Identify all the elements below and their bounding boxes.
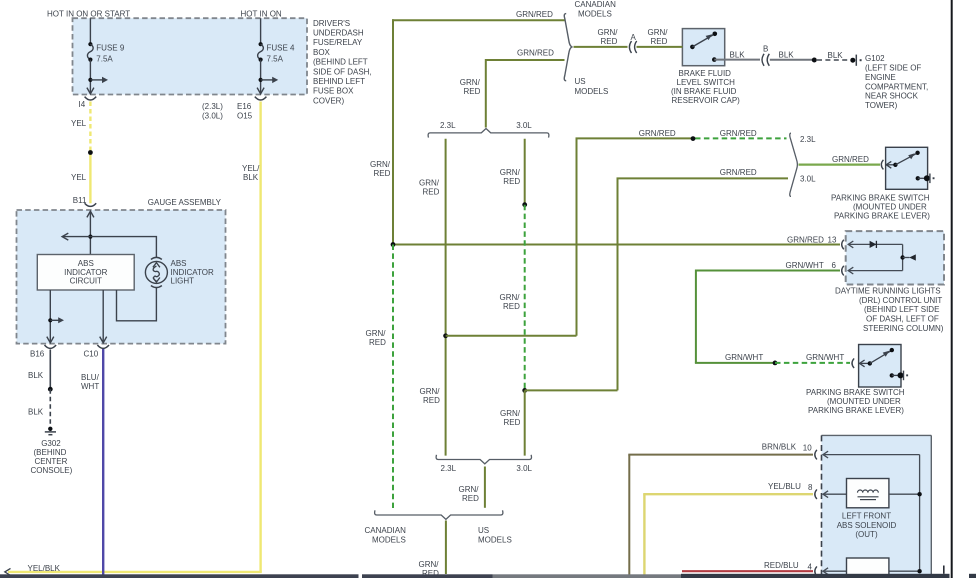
- svg-text:B11: B11: [73, 196, 87, 205]
- svg-text:(MOUNTED UNDER: (MOUNTED UNDER: [853, 203, 927, 212]
- wire GRN/RED 3.0L mid dashed: [524, 205, 526, 391]
- fuse 9 tap junction: [88, 78, 92, 82]
- svg-text:RED: RED: [423, 188, 440, 197]
- connector A: [629, 41, 636, 53]
- wire GRN/WHT horizontal to splice: [695, 362, 775, 364]
- fuse 4 tap junction: [259, 78, 263, 82]
- wire GRN/RED 3.0L mid vertical upper: [524, 139, 526, 205]
- svg-text:ABS: ABS: [171, 259, 187, 268]
- svg-text:INDICATOR: INDICATOR: [64, 268, 107, 277]
- wire GRN/RED top horizontal: [392, 19, 565, 21]
- right page border: [951, 0, 953, 578]
- svg-text:TOWER): TOWER): [865, 101, 898, 110]
- splice dot on YEL wire: [88, 150, 93, 155]
- splice dot 3.0L upper: [522, 202, 527, 207]
- svg-text:CANADIAN: CANADIAN: [365, 526, 407, 535]
- connector E16/O15: [255, 97, 267, 100]
- svg-text:BRN/BLK: BRN/BLK: [762, 443, 797, 452]
- svg-text:2.3L: 2.3L: [800, 135, 816, 144]
- svg-text:FUSE/RELAY: FUSE/RELAY: [313, 38, 363, 47]
- ABS modulator box: [822, 435, 932, 578]
- svg-text:GRN/RED: GRN/RED: [516, 10, 553, 19]
- svg-text:GRN/RED: GRN/RED: [832, 155, 869, 164]
- svg-text:(BEHIND LEFT SIDE: (BEHIND LEFT SIDE: [864, 305, 939, 314]
- connector DRL pin 13: [842, 240, 844, 250]
- svg-text:BLK: BLK: [779, 50, 795, 59]
- svg-text:RED: RED: [601, 37, 618, 46]
- wire YEL/BLU vertical: [643, 494, 645, 574]
- svg-text:(IN BRAKE FLUID: (IN BRAKE FLUID: [671, 87, 737, 96]
- connector parking brake 2: [852, 358, 854, 368]
- svg-text:BLK: BLK: [28, 408, 44, 417]
- label ABS indicator light: [171, 259, 214, 285]
- bottom bar segment 4: [681, 574, 950, 578]
- svg-text:B16: B16: [30, 350, 45, 359]
- svg-text:YEL/BLK: YEL/BLK: [28, 564, 61, 573]
- splice dot BLK: [48, 387, 53, 392]
- svg-text:7.5A: 7.5A: [267, 54, 284, 63]
- fuse 9 down arrow at box edge: [87, 88, 94, 94]
- svg-text:FUSE 9: FUSE 9: [96, 44, 125, 53]
- svg-text:GRN/WHT: GRN/WHT: [806, 353, 844, 362]
- wire BRN/BLK horizontal to pin 10: [628, 454, 813, 456]
- wire GRN/WHT vertical: [695, 270, 697, 363]
- wire BLK gray dashed: [817, 59, 849, 61]
- svg-text:ENGINE: ENGINE: [865, 73, 896, 82]
- left arrow gauge: [62, 233, 68, 240]
- svg-text:(BEHIND LEFT: (BEHIND LEFT: [313, 58, 368, 67]
- svg-text:RED: RED: [503, 177, 520, 186]
- wire GRN/WHT from DRL pin 6: [696, 270, 840, 272]
- B11 entry arrow up: [87, 211, 94, 217]
- splice dot BLK gray: [812, 58, 817, 63]
- wire B11 down to junction: [89, 211, 91, 254]
- svg-text:UNDERDASH: UNDERDASH: [313, 29, 364, 38]
- wire YEL dashed I4 to splice: [89, 102, 91, 153]
- svg-text:PARKING BRAKE SWITCH: PARKING BRAKE SWITCH: [806, 388, 905, 397]
- svg-text:B: B: [763, 45, 768, 54]
- stub arrow right from splice: [50, 317, 64, 323]
- svg-text:RED: RED: [503, 302, 520, 311]
- wire GRN/WHT dashed to parking brake switch 2: [775, 362, 850, 364]
- wire BLK gray from brake fluid switch: [714, 59, 760, 61]
- svg-text:RESERVOIR CAP): RESERVOIR CAP): [672, 96, 741, 105]
- connector B11: [85, 203, 97, 206]
- svg-text:GRN/: GRN/: [459, 485, 480, 494]
- svg-text:GRN/: GRN/: [366, 329, 387, 338]
- wire GRN/RED connector A to brake fluid switch: [637, 46, 683, 48]
- svg-text:US: US: [478, 526, 489, 535]
- wire circuit middle pin down: [102, 290, 104, 343]
- connector pin 8: [815, 489, 817, 499]
- svg-text:13: 13: [828, 236, 837, 245]
- DRL internal vertical: [902, 244, 904, 270]
- splice dot 3.0L lower: [522, 388, 527, 393]
- svg-text:RED: RED: [374, 169, 391, 178]
- svg-text:2.3L: 2.3L: [440, 121, 456, 130]
- left pin down arrow: [47, 337, 54, 343]
- svg-text:LEFT FRONT: LEFT FRONT: [842, 512, 891, 521]
- svg-text:DAYTIME RUNNING LIGHTS: DAYTIME RUNNING LIGHTS: [835, 287, 941, 296]
- wire YEL solid splice to B11: [89, 153, 91, 204]
- svg-text:STEERING COLUMN): STEERING COLUMN): [863, 324, 944, 333]
- svg-text:FUSE BOX: FUSE BOX: [313, 87, 354, 96]
- internal vertical bus: [919, 455, 921, 572]
- DRL pin 13 internal line with diode: [848, 241, 902, 248]
- wire GRN/RED dashed canadian below splice: [392, 245, 394, 509]
- wire GRN/RED splice to right vertical: [446, 335, 577, 337]
- ground G102: [850, 55, 861, 66]
- wire BLU/WHT C10 down: [102, 349, 104, 575]
- wire junction to left arrow: [64, 236, 91, 238]
- connector B: [762, 54, 769, 66]
- svg-text:BLU/: BLU/: [81, 373, 100, 382]
- parking brake switch box 1: [886, 147, 928, 189]
- svg-text:GRN/RED: GRN/RED: [517, 49, 554, 58]
- DRL internal junction with stub arrow: [900, 254, 915, 260]
- svg-text:I4: I4: [79, 100, 86, 109]
- fuse 9 tap arrow right: [90, 77, 108, 83]
- fuse 4 down arrow at box edge: [257, 88, 264, 94]
- bracket 2.3L/3.0L lower: [436, 455, 531, 464]
- junction dot solenoid bus: [917, 492, 921, 496]
- svg-text:GRN/: GRN/: [500, 409, 521, 418]
- svg-text:GRN/WHT: GRN/WHT: [786, 261, 824, 270]
- middle pin down arrow: [100, 337, 107, 343]
- svg-text:MODELS: MODELS: [478, 536, 512, 545]
- wire GRN/RED 2.3L dashed to brace: [695, 137, 787, 139]
- svg-text:WHT: WHT: [81, 382, 99, 391]
- svg-text:GRN/: GRN/: [500, 168, 521, 177]
- svg-text:OF DASH, LEFT OF: OF DASH, LEFT OF: [866, 315, 939, 324]
- connector parking brake 1: [881, 160, 883, 170]
- bottom bar segment 2: [362, 574, 493, 578]
- svg-text:GRN/: GRN/: [419, 560, 440, 569]
- svg-text:COMPARTMENT,: COMPARTMENT,: [865, 82, 928, 91]
- svg-text:G302: G302: [41, 439, 61, 448]
- svg-text:YEL: YEL: [71, 119, 87, 128]
- hot feed wire fuse 4: [260, 18, 262, 44]
- svg-text:A: A: [631, 33, 637, 42]
- wire YEL/BLK fuse4 down: [259, 102, 261, 572]
- gauge assembly box: [17, 210, 226, 344]
- wire GRN/RED horizontal to DRL pin 13: [393, 244, 840, 246]
- svg-text:CANADIAN: CANADIAN: [575, 0, 617, 9]
- svg-text:RED: RED: [462, 494, 479, 503]
- svg-text:INDICATOR: INDICATOR: [171, 268, 214, 277]
- svg-text:BLK: BLK: [243, 173, 259, 182]
- svg-text:GRN/: GRN/: [460, 78, 481, 87]
- svg-text:(MOUNTED UNDER: (MOUNTED UNDER: [827, 397, 901, 406]
- ABS indicator circuit box: [37, 255, 134, 291]
- svg-text:(LEFT SIDE OF: (LEFT SIDE OF: [865, 64, 921, 73]
- connector I4: [85, 97, 97, 100]
- svg-text:C10: C10: [84, 350, 99, 359]
- svg-text:PARKING BRAKE SWITCH: PARKING BRAKE SWITCH: [831, 194, 930, 203]
- svg-text:BEHIND LEFT: BEHIND LEFT: [313, 77, 365, 86]
- svg-text:3.0L: 3.0L: [800, 174, 816, 183]
- splice dot 2.3L mid: [443, 333, 448, 338]
- wire RED/BLU horizontal to pin 4: [682, 570, 813, 572]
- bottom bar segment 5: [969, 574, 976, 578]
- svg-text:GRN/RED: GRN/RED: [787, 235, 824, 244]
- svg-text:BLK: BLK: [730, 50, 746, 59]
- svg-text:8: 8: [808, 483, 813, 492]
- svg-text:CENTER: CENTER: [35, 457, 68, 466]
- wire circuit left pin down: [49, 290, 51, 343]
- label parking brake switch 2: [806, 388, 905, 415]
- wire GRN/RED canadian vertical: [392, 19, 394, 244]
- svg-text:(3.0L): (3.0L): [202, 111, 223, 120]
- svg-text:DRIVER'S: DRIVER'S: [313, 19, 350, 28]
- label G102 location: [865, 64, 928, 110]
- svg-text:(BEHIND: (BEHIND: [34, 448, 67, 457]
- svg-text:RED/BLU: RED/BLU: [764, 561, 799, 570]
- label G302: [31, 439, 73, 475]
- svg-text:CIRCUIT: CIRCUIT: [70, 277, 103, 286]
- pin 10 internal line: [823, 451, 920, 458]
- svg-text:HOT IN ON OR START: HOT IN ON OR START: [47, 10, 130, 19]
- label brake fluid level switch: [671, 69, 740, 105]
- wire GRN/RED 2.3L vertical down from brake line: [576, 138, 578, 335]
- svg-text:GAUGE ASSEMBLY: GAUGE ASSEMBLY: [148, 198, 222, 207]
- cut-off box edge bottom right: [943, 566, 945, 574]
- connector B16: [45, 345, 57, 348]
- svg-text:MODELS: MODELS: [575, 87, 609, 96]
- svg-text:GRN/RED: GRN/RED: [720, 129, 757, 138]
- wire GRN/RED US horizontal: [485, 59, 565, 61]
- wire GRN/RED splice to 3.0L right vertical: [525, 389, 618, 391]
- svg-text:GRN/: GRN/: [500, 293, 521, 302]
- fuse 9 output wire: [89, 60, 91, 95]
- svg-text:YEL: YEL: [71, 173, 87, 182]
- svg-text:GRN/: GRN/: [370, 160, 391, 169]
- svg-text:6: 6: [832, 261, 837, 270]
- svg-text:(2.3L): (2.3L): [202, 102, 223, 111]
- parking brake switch 2 internals: [860, 348, 909, 380]
- splice dot left pin: [48, 318, 52, 322]
- wire GRN/RED 2.3L horizontal to splice: [576, 137, 694, 139]
- svg-text:GRN/: GRN/: [420, 387, 441, 396]
- svg-text:BLK: BLK: [828, 51, 844, 60]
- svg-text:FUSE 4: FUSE 4: [267, 44, 296, 53]
- solenoid to bus wire: [889, 493, 920, 495]
- svg-text:O15: O15: [237, 111, 253, 120]
- SECTION: brake fluid level switch internals: [682, 32, 717, 62]
- wire GRN/RED 2.3L mid vertical: [445, 139, 447, 456]
- svg-text:E16: E16: [237, 102, 252, 111]
- splice dot GRN/RED main: [391, 242, 396, 247]
- svg-text:(OUT): (OUT): [855, 530, 878, 539]
- bottom bar segment 3: [493, 574, 682, 578]
- svg-text:US: US: [575, 77, 586, 86]
- svg-text:(DRL) CONTROL UNIT: (DRL) CONTROL UNIT: [859, 296, 942, 305]
- svg-text:RED: RED: [651, 37, 668, 46]
- svg-text:RED: RED: [369, 338, 386, 347]
- svg-text:GRN/: GRN/: [598, 28, 619, 37]
- connector pin 4: [815, 566, 817, 576]
- svg-text:COVER): COVER): [313, 96, 344, 105]
- wire junction to bulb: [90, 237, 156, 258]
- fuse 4 element: [258, 42, 264, 62]
- arrow left end of YEL/BLK: [5, 568, 11, 575]
- pin 4 internal line: [823, 568, 922, 575]
- svg-text:BOX: BOX: [313, 48, 331, 57]
- svg-text:GRN/: GRN/: [648, 28, 669, 37]
- wire BLK solid: [49, 350, 51, 390]
- svg-text:GRN/: GRN/: [419, 179, 440, 188]
- svg-text:RED: RED: [423, 396, 440, 405]
- svg-text:PARKING BRAKE LEVER): PARKING BRAKE LEVER): [808, 406, 904, 415]
- wire bulb bottom loop to circuit box: [117, 287, 157, 321]
- parking brake switch 1 internals: [886, 151, 934, 184]
- solenoid coil box: [847, 479, 889, 508]
- svg-text:YEL/BLU: YEL/BLU: [768, 482, 801, 491]
- DRL control unit box: [846, 231, 944, 284]
- svg-text:YEL/: YEL/: [242, 164, 260, 173]
- label driver's underdash fuse/relay box: [313, 19, 372, 106]
- svg-text:3.0L: 3.0L: [516, 464, 532, 473]
- wire GRN/RED 3.0L mid vertical lower: [524, 390, 526, 455]
- splice dot GRN/WHT: [773, 361, 778, 366]
- svg-text:GRN/RED: GRN/RED: [639, 129, 676, 138]
- brace canadian/us models: [564, 14, 572, 81]
- ABS indicator light bulb: [145, 257, 167, 287]
- svg-text:ABS: ABS: [78, 259, 94, 268]
- wire YEL/BLK bottom horizontal: [8, 571, 262, 573]
- svg-text:BRAKE FLUID: BRAKE FLUID: [679, 69, 732, 78]
- fuse 4 tap arrow right: [261, 77, 279, 83]
- svg-text:7.5A: 7.5A: [96, 54, 113, 63]
- wire GRN/RED bottom stem: [445, 521, 447, 575]
- svg-text:CONSOLE): CONSOLE): [31, 466, 73, 475]
- hot feed wire fuse 9: [89, 18, 91, 44]
- svg-text:3.0L: 3.0L: [516, 121, 532, 130]
- svg-text:RED: RED: [504, 418, 521, 427]
- wire YEL/BLU horizontal to pin 8: [643, 493, 813, 495]
- DRL pin 6 internal line: [848, 267, 902, 274]
- fuse 4 output wire: [260, 60, 262, 95]
- pin 8 internal line: [823, 491, 847, 498]
- svg-text:NEAR SHOCK: NEAR SHOCK: [865, 92, 919, 101]
- svg-text:MODELS: MODELS: [372, 536, 406, 545]
- label DRL control unit: [835, 287, 944, 333]
- wire GRN/RED 3.0L vertical: [617, 178, 619, 390]
- svg-text:LEVEL SWITCH: LEVEL SWITCH: [677, 78, 736, 87]
- connector C10: [97, 345, 109, 348]
- connector pin 10: [815, 450, 817, 460]
- svg-text:BLK: BLK: [28, 371, 44, 380]
- svg-text:10: 10: [803, 444, 812, 453]
- bracket canadian/us models bottom: [375, 510, 503, 519]
- fuse/relay box: [73, 18, 308, 94]
- fuse 9 element: [87, 42, 93, 62]
- svg-text:2.3L: 2.3L: [441, 464, 457, 473]
- svg-text:GRN/WHT: GRN/WHT: [725, 353, 763, 362]
- wire BLK gray to splice: [770, 59, 815, 61]
- wire GRN/RED 3.0L horizontal to brace: [617, 177, 789, 179]
- wire GRN/RED US vertical: [485, 59, 487, 128]
- svg-text:RED: RED: [464, 87, 481, 96]
- svg-text:LIGHT: LIGHT: [171, 277, 195, 286]
- wire BLK dashed: [49, 389, 51, 427]
- brake fluid level switch box: [682, 29, 724, 66]
- svg-text:4: 4: [808, 563, 813, 572]
- svg-text:SIDE OF DASH,: SIDE OF DASH,: [313, 67, 372, 76]
- svg-text:G102: G102: [865, 54, 885, 63]
- wire BRN/BLK vertical: [628, 455, 630, 575]
- parking brake switch box 2: [859, 345, 901, 388]
- svg-text:ABS SOLENOID: ABS SOLENOID: [837, 521, 897, 530]
- splice dot 2.3L brake line: [691, 136, 696, 141]
- ground G302: [45, 427, 56, 435]
- brace parking brake 1: [790, 133, 798, 196]
- solenoid 2 coil box cut off: [847, 558, 889, 576]
- junction dot gauge: [88, 235, 92, 239]
- svg-text:HOT IN ON: HOT IN ON: [241, 10, 282, 19]
- wire GRN/RED bracket1 stem: [484, 467, 486, 508]
- bracket 2.3L/3.0L top: [428, 129, 549, 138]
- svg-text:PARKING BRAKE LEVER): PARKING BRAKE LEVER): [834, 212, 930, 221]
- bottom bar segment 1: [0, 574, 359, 578]
- connector DRL pin 6: [842, 266, 844, 276]
- wire GRN/RED brace to parking brake switch 1: [799, 164, 881, 166]
- label parking brake switch 1: [831, 194, 930, 221]
- svg-text:GRN/RED: GRN/RED: [720, 168, 757, 177]
- label left front ABS solenoid: [837, 512, 897, 540]
- svg-text:MODELS: MODELS: [578, 10, 612, 19]
- wire GRN/RED brace to connector A: [574, 46, 628, 48]
